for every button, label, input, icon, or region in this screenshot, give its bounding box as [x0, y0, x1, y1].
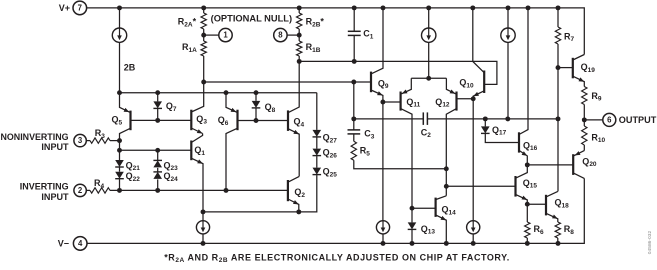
label R10: [591, 132, 605, 144]
label R4: [94, 178, 105, 190]
transistor Q3: [191, 82, 203, 134]
junction dot R1A/Q3 collector: [201, 80, 206, 85]
svg-text:V+: V+: [59, 3, 70, 13]
junction dot 2B/Q5 emitter: [117, 90, 122, 95]
junction dot Q7 anode: [155, 90, 160, 95]
transistor Q14: [436, 196, 447, 244]
svg-text:8: 8: [278, 31, 283, 40]
label OUTPUT: [619, 115, 657, 125]
pin 7 (V+ supply): [73, 1, 87, 15]
label R6: [534, 224, 545, 236]
wire Q9 emitter node down to current source: [382, 102, 384, 221]
current source input-stage tail: [196, 221, 209, 234]
wire Q19 base: [558, 67, 573, 69]
wire Q13 node to Q14 base: [412, 207, 436, 209]
transistor Q2: [288, 176, 299, 212]
wire Q25 column to tail node: [299, 175, 317, 212]
label C2: [421, 127, 432, 139]
wire pin 8 to null node: [287, 34, 299, 36]
diode Q24: [153, 168, 162, 191]
pin 3 (noninverting input): [74, 134, 86, 146]
wire Q1 base: [120, 149, 192, 151]
transistor Q9: [371, 8, 383, 102]
label Q21: [126, 160, 141, 172]
label C3: [364, 129, 375, 141]
pin 8 (optional null): [274, 28, 287, 41]
resistor R1A: [201, 35, 206, 82]
svg-text:V−: V−: [58, 239, 69, 249]
wire input-stage top node (2B source to Q25-27 column): [120, 92, 317, 94]
junction dots on V- rail: [201, 241, 561, 246]
transistor Q12: [446, 78, 456, 196]
side code 04586-032: [647, 231, 653, 255]
wire bias source to V- rail (right): [472, 234, 474, 244]
label Q2: [294, 187, 305, 199]
junction dot bias source output: [505, 116, 510, 121]
diode Q22: [115, 168, 124, 191]
svg-text:6: 6: [607, 116, 612, 125]
wire Q9 emitter to Q11 base: [383, 101, 401, 103]
junction dots on V+ rail: [117, 5, 560, 10]
transistor Q20: [573, 151, 584, 179]
svg-text:INVERTING: INVERTING: [20, 182, 69, 193]
wire R5 bottom to Q14 collector node: [354, 160, 447, 169]
diode Q8: [252, 93, 261, 121]
wire Q19 base node column: [557, 68, 559, 192]
diode Q7: [153, 93, 162, 121]
junction dot Q8 anode: [254, 90, 259, 95]
label R2A*: [178, 17, 197, 29]
label Q24: [164, 171, 179, 183]
transistor Q16: [519, 8, 528, 165]
diode Q26: [313, 137, 322, 155]
junction dot Q22 bottom: [117, 188, 122, 193]
resistor R10: [582, 120, 587, 151]
label Q12: [435, 97, 450, 109]
label Q27: [323, 133, 338, 145]
wire V+ rail to current source 2B: [119, 8, 121, 28]
diode Q23: [153, 150, 162, 167]
svg-text:INPUT: INPUT: [41, 142, 68, 153]
label Q9: [378, 78, 389, 90]
wire pin 2 to R4: [86, 189, 90, 191]
resistor R2B: [297, 8, 302, 35]
current source output stage bias: [501, 28, 515, 42]
junction dot Q2 emitter: [296, 209, 301, 214]
label R7: [564, 31, 575, 43]
wire bias current source down: [507, 42, 509, 119]
wire noninv node down: [119, 141, 121, 151]
wire bias source to V- rail: [382, 234, 384, 244]
wire Q10 emitter node down to current source: [472, 99, 474, 221]
label C1: [363, 29, 374, 41]
wire node-A: R1A bottom / Q3 collector to Q9 base: [204, 81, 371, 83]
svg-text:2B: 2B: [124, 63, 136, 73]
wire C2 to Q17/Q19-base node: [427, 118, 558, 120]
wire Q16 emitter node to Q20 base: [527, 164, 573, 166]
junction dot Q24 bottom: [155, 188, 160, 193]
junction dot C1 bottom: [352, 59, 357, 64]
node R2B/R1B/null-8 junction: [297, 33, 302, 38]
label R1A: [182, 42, 197, 54]
capacitor C2: [423, 112, 427, 125]
wire pin 3 to R3: [86, 140, 90, 142]
wire Q6 base to Q4 base: [238, 120, 289, 122]
label R2B*: [306, 17, 325, 29]
label NONINVERTING INPUT: [1, 132, 69, 153]
wire C3/C2 node to C2: [354, 118, 424, 120]
wire current source to Q11/Q12 emitters: [428, 42, 430, 78]
diode Q17: [481, 119, 519, 143]
svg-text:3: 3: [78, 136, 83, 145]
svg-text:INPUT: INPUT: [41, 192, 68, 203]
label Q14: [442, 205, 457, 217]
junction dot Q18 collector riser: [556, 116, 561, 121]
junction dot C3/C2 node: [351, 116, 356, 121]
junction dot Q8 cathode: [254, 118, 259, 123]
svg-text:NONINVERTING: NONINVERTING: [1, 132, 69, 143]
wire R3 to Q5 collector node: [110, 140, 120, 142]
node R2A/R1A/null-1 junction: [201, 33, 206, 38]
label Q19: [581, 62, 596, 74]
junction dot Q17 anode: [483, 116, 488, 121]
current source Q11/Q12 emitter supply: [422, 28, 436, 42]
label Q8: [265, 102, 276, 114]
wire V+ rail to output-bias current source: [507, 8, 509, 28]
wire V+ rail (pin 7 to Q19 collector corner): [86, 8, 584, 55]
diode Q27: [313, 93, 322, 137]
wire Q11/Q12 joined emitters: [411, 77, 446, 79]
wire Q14 collector node to Q15 base: [446, 185, 515, 187]
label Q11: [406, 97, 420, 109]
label Q17: [492, 125, 507, 137]
svg-text:04586-032: 04586-032: [647, 231, 653, 255]
wire tail node (Q1/Q2 emitters): [203, 211, 299, 213]
junction dot Q5 collector / R3: [117, 138, 122, 143]
diode Q13: [408, 208, 417, 243]
label Q3: [196, 114, 207, 126]
resistor R1B: [297, 35, 302, 61]
label Q6: [218, 115, 229, 127]
wire null node to pin 1: [204, 34, 219, 36]
label INVERTING INPUT: [20, 182, 69, 204]
transistor Q10: [473, 8, 484, 99]
wire Q5 base to Q3 base: [131, 119, 192, 121]
label Q13: [421, 224, 436, 236]
junction dot Q15 emitter / Q18 base: [525, 202, 530, 207]
junction dot R5 / Q12 collector / Q14 collector: [444, 166, 449, 171]
label R5: [360, 146, 371, 158]
capacitor C1: [348, 8, 361, 62]
label R9: [591, 91, 602, 103]
transistor Q18: [546, 191, 558, 222]
junction dot Q11/Q12 emitters: [426, 76, 431, 81]
transistor Q11: [401, 78, 412, 208]
junction dot Q9 emitter: [380, 100, 385, 105]
label Q15: [523, 178, 538, 190]
wire Q15 emitter to Q18 base: [527, 203, 546, 205]
svg-text:OUTPUT: OUTPUT: [619, 115, 657, 125]
resistor R4: [90, 188, 110, 193]
transistor Q1: [191, 134, 203, 212]
wire tail current source to V- rail: [202, 234, 204, 244]
junction dot Q7 cathode: [155, 118, 160, 123]
resistor R9: [582, 87, 587, 120]
label Q10: [459, 78, 474, 90]
label V+: [59, 3, 70, 13]
label 2B: [124, 63, 136, 73]
wire V+ rail to mirror current source: [428, 8, 430, 28]
label Q22: [126, 171, 141, 183]
wire V- rail (pin 4 to Q20 collector corner): [87, 178, 585, 243]
wire current source 2B to input-stage top node: [119, 42, 121, 92]
wire node-B: R1B bottom / Q4 collector to Q10 base: [299, 61, 497, 84]
svg-text:2: 2: [78, 186, 83, 195]
junction dot Q6 collector: [224, 188, 229, 193]
label Q25: [323, 167, 338, 179]
pin 2 (inverting input): [74, 184, 86, 196]
junction dot Q10 emitter: [471, 96, 476, 101]
current source 2B: [112, 28, 126, 42]
resistor R5: [351, 141, 356, 160]
junction dot Q16 emitter / Q15 collector / Q20 base: [525, 162, 530, 167]
junction dot R1B/Q4 collector: [297, 59, 302, 64]
junction dot Q6 emitter: [224, 90, 229, 95]
svg-text:(OPTIONAL NULL): (OPTIONAL NULL): [211, 14, 293, 24]
junction dot Q19 base: [556, 65, 561, 70]
pin 6 (output): [603, 113, 616, 126]
label Q16: [523, 140, 538, 152]
label R3: [95, 128, 106, 140]
wire output node to pin 6: [584, 119, 603, 121]
label Q20: [582, 156, 597, 168]
label Q26: [323, 148, 338, 160]
junction dot output node: [582, 117, 587, 122]
resistor R3: [90, 138, 110, 143]
svg-text:1: 1: [223, 31, 228, 40]
transistor Q15: [516, 165, 528, 204]
transistor Q19: [573, 55, 585, 87]
resistor R2A: [201, 8, 206, 35]
junction dot node-A to C3/C2 branch: [351, 80, 356, 85]
svg-text:4: 4: [78, 239, 83, 248]
junction dot Q1 emitter / tail source: [201, 209, 206, 214]
label Q4: [294, 117, 305, 129]
pin 4 (V- supply): [73, 237, 87, 251]
resistor R6: [525, 204, 530, 243]
resistor R8: [555, 222, 560, 243]
junction dot Q21 column top: [117, 148, 122, 153]
label (OPTIONAL NULL): [211, 14, 293, 24]
label Q23: [164, 160, 179, 172]
diode Q25: [313, 156, 322, 175]
wire inverting input to Q2 base: [110, 189, 288, 191]
label R1B: [306, 42, 321, 54]
current source Q9 emitter bias: [376, 221, 389, 234]
label V-: [58, 239, 69, 249]
junction dot Q23 column top: [155, 148, 160, 153]
wire tail node to current source: [202, 212, 204, 221]
capacitor C3: [348, 119, 361, 141]
transistor Q4: [288, 61, 299, 176]
label Q7: [166, 101, 177, 113]
note footer text: [164, 252, 510, 264]
diode Q21: [115, 150, 124, 167]
current source Q10 emitter bias: [467, 221, 480, 234]
pin 1 (optional null): [219, 28, 232, 41]
label R8: [564, 224, 575, 236]
transistor Q5: [120, 93, 131, 141]
junction dot Q13/Q14 base: [410, 206, 415, 211]
label Q5: [112, 115, 123, 127]
svg-text:7: 7: [78, 4, 82, 13]
transistor Q6: [226, 93, 238, 191]
junction dot Q12/Q14 collector to Q15 base: [444, 184, 449, 189]
label Q18: [555, 198, 570, 210]
wire node-A branch down to C3: [353, 82, 355, 119]
wire Q10 emitter to Q12 base: [457, 98, 474, 100]
resistor R7: [555, 8, 560, 68]
label Q1: [194, 145, 205, 157]
